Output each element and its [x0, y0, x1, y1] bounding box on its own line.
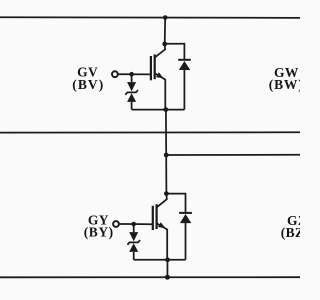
wire P bus (top horizontal): [0, 16, 300, 19]
node top-bus junction: [163, 15, 168, 20]
zener pair Z1 (gate clamp, upper): [125, 74, 138, 109]
diode D2 (free-wheel, lower): [166, 194, 192, 260]
node bottom-bus junction: [165, 275, 170, 280]
wire Q2 emitter node to N bus: [166, 260, 168, 278]
node Q1 collector: [162, 42, 167, 47]
node Q2 gate tee: [131, 222, 136, 227]
svg-text:(BW): (BW): [269, 77, 300, 92]
wire Q1 gate lead: [118, 73, 151, 75]
wire top bus to Q1 collector: [164, 17, 167, 44]
node Q1 gate tee: [129, 72, 134, 77]
wire lower branch to Q2 collector: [165, 155, 167, 194]
wire Q1 emitter return (zener + diode to node): [132, 109, 185, 111]
Q2 emitter arrow: [158, 222, 167, 231]
svg-text:(BV): (BV): [72, 77, 104, 92]
wire output bus (middle horizontal): [0, 131, 300, 133]
Q1 emitter arrow: [156, 72, 165, 81]
wire Q1 emitter node to lower branch: [165, 110, 167, 155]
transistor Q1 (upper IGBT): [151, 44, 165, 110]
wire N bus (bottom horizontal): [0, 276, 300, 278]
terminal GY (open circle): [113, 221, 119, 227]
svg-text:(BY): (BY): [84, 225, 114, 240]
zener pair Z2 (gate clamp, lower): [127, 224, 140, 260]
node lower-branch tee: [164, 153, 169, 158]
wire Q2 emitter return (zener + diode to node): [134, 259, 186, 261]
terminal GV (open circle): [112, 71, 118, 77]
node Q1 emitter: [163, 107, 168, 112]
wire Q2 gate lead: [119, 223, 153, 225]
node Q2 collector: [164, 191, 169, 196]
node Q2 emitter: [165, 257, 170, 262]
diode D1 (free-wheel, upper): [165, 44, 191, 110]
svg-text:(BZ): (BZ): [281, 225, 300, 240]
transistor Q2 (lower IGBT): [153, 194, 167, 260]
wire lower collector branch (right of center): [166, 154, 300, 156]
